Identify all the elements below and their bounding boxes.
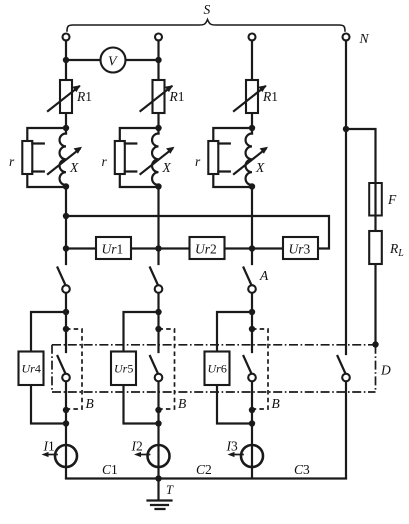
wire column 2 between A-switch and B-box <box>157 293 159 478</box>
svg-text:V: V <box>108 55 118 70</box>
svg-text:X: X <box>162 160 172 175</box>
wire column 1 upper vertical <box>65 41 67 265</box>
relay coil Ur2 <box>190 237 225 259</box>
svg-text:X: X <box>255 160 265 175</box>
dashed box of contact B (column 3) <box>252 329 268 409</box>
switch upper contact col1: blade <box>58 268 66 285</box>
svg-text:C3: C3 <box>294 462 310 477</box>
wire column 3 upper vertical <box>251 41 253 265</box>
resistor RL <box>369 231 382 264</box>
node: Ur5 return junction (column 2) <box>155 420 161 426</box>
svg-text:R1: R1 <box>262 89 278 104</box>
wire bottom bus <box>66 477 346 479</box>
wire to Ur4 box <box>31 312 66 424</box>
svg-text:B: B <box>178 396 186 411</box>
svg-text:D: D <box>380 363 391 378</box>
node: ground junction on bus <box>155 475 161 481</box>
node: B-box bottom corner (column 3) <box>249 407 255 413</box>
inductor X coil (column 2) <box>152 134 158 186</box>
node: N column tap to load branch <box>343 126 349 132</box>
wire voltmeter row <box>66 59 159 61</box>
node: junction above r/X (column 1) <box>63 125 69 131</box>
svg-text:r: r <box>102 154 108 169</box>
svg-text:B: B <box>272 396 280 411</box>
relay coil Ur6 <box>205 352 230 386</box>
node: B-box bottom corner (column 2) <box>155 407 161 413</box>
node: Ur row junction x=252 <box>249 245 255 251</box>
node: bus tap on column 1 <box>63 213 69 219</box>
svg-text:S: S <box>204 2 211 17</box>
switch B col2: contact circle <box>155 374 163 382</box>
svg-text:Ur4: Ur4 <box>22 362 41 376</box>
wire parallel branch to resistor r (column 3) <box>213 128 252 187</box>
resistor r (column 2) <box>115 141 125 174</box>
svg-text:Ur6: Ur6 <box>208 362 227 376</box>
fuse F <box>369 183 382 216</box>
svg-text:R1: R1 <box>76 89 92 104</box>
svg-text:r: r <box>195 154 201 169</box>
relay coil Ur5 <box>111 352 136 386</box>
node: junction below r/X (column 1) <box>63 183 69 189</box>
node: tap to Ur4 (column 1) <box>63 309 69 315</box>
inductor X coil (column 3) <box>246 134 252 186</box>
wire column N vertical <box>345 41 347 479</box>
wire parallel branch to resistor r (column 1) <box>27 128 66 187</box>
voltmeter V <box>101 48 126 73</box>
svg-text:F: F <box>387 192 397 207</box>
mechanical linkage frame (dash-dot) left edge <box>51 345 53 392</box>
node: col2 voltmeter tap <box>155 57 161 63</box>
resistor r (column 1) <box>22 141 32 174</box>
svg-text:r: r <box>9 154 15 169</box>
mechanical linkage frame (dash-dot) right edge <box>375 345 377 392</box>
svg-text:R1: R1 <box>169 89 185 104</box>
resistor r (column 3) <box>208 141 218 174</box>
svg-text:Ur5: Ur5 <box>114 362 133 376</box>
dashed box of contact B (column 2) <box>159 329 175 409</box>
switch B col1: blade <box>58 356 66 373</box>
svg-text:A: A <box>259 268 269 283</box>
wire to Ur5 box <box>124 312 159 424</box>
node: junction below r/X (column 3) <box>249 183 255 189</box>
node: B-box top corner (column 3) <box>249 326 255 332</box>
wire bus to Ur3 <box>66 216 329 249</box>
terminal 2 (open circle) <box>155 34 162 41</box>
terminal 4 (open circle) <box>343 34 350 41</box>
node: B-box top corner (column 1) <box>63 326 69 332</box>
switch B col1: contact circle <box>62 374 70 382</box>
wire Ur row <box>66 247 283 249</box>
wire column 1 between A-switch and B-box <box>65 293 67 478</box>
wire to Ur6 box <box>217 312 252 424</box>
node: B-box bottom corner (column 1) <box>63 407 69 413</box>
node: tap to Ur5 (column 2) <box>155 309 161 315</box>
node: Ur row junction x=66 <box>63 245 69 251</box>
wire stubs right of r (column 2) <box>125 144 137 172</box>
node: Ur row junction x=158.5 <box>155 245 161 251</box>
node: junction above r/X (column 3) <box>249 125 255 131</box>
svg-text:I2: I2 <box>131 439 143 454</box>
wire stubs right of r (column 3) <box>218 144 230 172</box>
svg-text:X: X <box>69 160 79 175</box>
node: B-box top corner (column 2) <box>155 326 161 332</box>
net S: supply bracket <box>67 20 345 32</box>
wire column 3 between A-switch and B-box <box>251 293 253 478</box>
resistor R1 (column 1) <box>48 80 81 113</box>
arrow I2 direction <box>134 452 150 457</box>
switch upper contact col1: contact circle <box>62 285 70 293</box>
wire stubs right of r (column 1) <box>32 144 44 172</box>
svg-text:T: T <box>166 483 174 497</box>
node: Ur4 return junction (column 1) <box>63 420 69 426</box>
inductor X coil (column 1) <box>60 134 66 186</box>
node: load branch bottom on linkage <box>372 341 378 347</box>
variable arrow through X (column 2) <box>141 147 175 174</box>
wire load branch (to F and RL) <box>346 129 376 344</box>
ground T <box>148 479 172 510</box>
switch B col2: blade <box>150 356 158 373</box>
svg-text:N: N <box>359 31 370 46</box>
arrow I3 direction <box>228 452 244 457</box>
svg-text:Ur2: Ur2 <box>195 242 217 257</box>
svg-text:B: B <box>86 396 94 411</box>
node: tap to Ur6 (column 3) <box>249 309 255 315</box>
current transformer I3 circle <box>241 445 263 467</box>
svg-text:C1: C1 <box>102 462 118 477</box>
switch upper contact col3: contact circle <box>248 285 256 293</box>
switch B col3: blade <box>244 356 252 373</box>
node: junction above r/X (column 2) <box>155 125 161 131</box>
wire parallel branch to resistor r (column 2) <box>120 128 159 187</box>
wire column 2 upper vertical <box>157 41 159 265</box>
relay coil Ur4 <box>19 352 44 386</box>
current transformer I2 circle <box>148 445 170 467</box>
resistor R1 (column 2) <box>141 80 174 113</box>
terminal 1 (open circle) <box>63 34 70 41</box>
mechanical linkage frame (dash-dot) top <box>52 344 376 346</box>
svg-text:I3: I3 <box>226 439 239 454</box>
svg-text:I1: I1 <box>43 439 55 454</box>
switch D: blade <box>338 356 346 373</box>
node: junction below r/X (column 2) <box>155 183 161 189</box>
node: col1 voltmeter tap <box>63 57 69 63</box>
switch upper contact col2: contact circle <box>155 285 163 293</box>
switch upper contact col2: blade <box>150 268 158 285</box>
switch D: contact circle <box>342 374 350 382</box>
resistor R1 (column 3) <box>234 80 267 113</box>
node: Ur6 return junction (column 3) <box>249 420 255 426</box>
switch B col3: contact circle <box>248 374 256 382</box>
variable arrow through X (column 1) <box>48 147 82 174</box>
variable arrow through X (column 3) <box>234 147 268 174</box>
svg-text:Ur1: Ur1 <box>102 242 124 257</box>
arrow I1 direction <box>42 452 58 457</box>
terminal 3 (open circle) <box>249 34 256 41</box>
mechanical linkage frame (dash-dot) bottom <box>52 391 376 393</box>
relay coil Ur1 <box>96 237 131 259</box>
svg-text:Ur3: Ur3 <box>289 242 311 257</box>
switch upper contact col3: blade <box>244 268 252 285</box>
dashed box of contact B (column 1) <box>66 329 82 409</box>
relay coil Ur3 <box>283 237 318 259</box>
current transformer I1 circle <box>55 445 77 467</box>
svg-text:C2: C2 <box>196 462 212 477</box>
